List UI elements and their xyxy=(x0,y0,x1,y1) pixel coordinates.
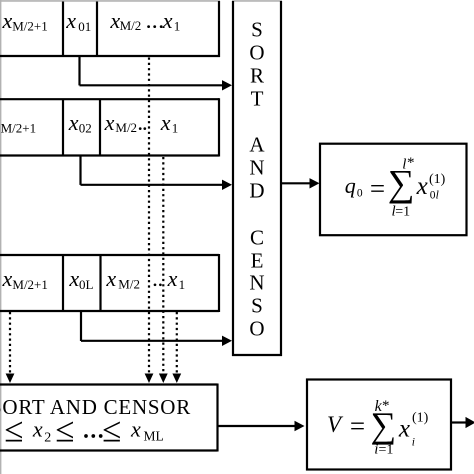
svg-text:N: N xyxy=(249,271,264,295)
V equation box xyxy=(307,380,451,470)
svg-text:01: 01 xyxy=(78,19,91,34)
arrow sorter to q0 box xyxy=(282,178,320,188)
svg-text:O: O xyxy=(249,41,264,65)
svg-text:x: x xyxy=(32,417,43,442)
svg-text:x: x xyxy=(167,266,178,291)
svg-text:S: S xyxy=(251,18,263,42)
shift register row 3 box xyxy=(0,254,219,312)
arrow bottom censor to V box xyxy=(219,421,305,431)
svg-text:S: S xyxy=(251,294,263,318)
figure cut edge left (gray) xyxy=(0,0,2,474)
svg-text:T: T xyxy=(251,87,264,111)
arrow row3 to sorter xyxy=(81,311,232,346)
svg-text:M/2: M/2 xyxy=(115,120,137,135)
svg-text:ML: ML xyxy=(144,429,164,444)
svg-text:M/2+1: M/2+1 xyxy=(12,19,48,34)
svg-text:(1): (1) xyxy=(429,172,446,187)
arrow row1 to sorter xyxy=(80,57,233,91)
svg-text:≤: ≤ xyxy=(55,410,74,449)
svg-text:x: x xyxy=(68,110,79,135)
svg-text:02: 02 xyxy=(79,121,92,136)
svg-text:x: x xyxy=(130,417,141,442)
svg-text:O: O xyxy=(249,317,264,341)
q0 equation text xyxy=(345,155,446,220)
svg-text:M/2: M/2 xyxy=(120,18,142,33)
row1 cell label x_M/2+1 xyxy=(2,8,48,34)
svg-text:l: l xyxy=(436,190,439,202)
svg-text:x: x xyxy=(162,8,173,33)
vertical text SORT AND CENSO xyxy=(249,18,265,341)
svg-text:l: l xyxy=(402,157,406,173)
svg-text:x: x xyxy=(104,110,115,135)
svg-text:R: R xyxy=(250,64,264,88)
row1 cell label x_01 xyxy=(65,8,91,34)
figure cut edge top (gray) xyxy=(0,0,220,2)
svg-text:E: E xyxy=(251,249,264,273)
svg-text:q: q xyxy=(345,173,356,198)
svg-text:C: C xyxy=(250,226,264,250)
svg-text:M/2+1: M/2+1 xyxy=(1,121,37,136)
svg-text:x: x xyxy=(2,266,13,291)
svg-text:x: x xyxy=(398,416,410,443)
svg-text:≤: ≤ xyxy=(4,410,23,449)
svg-text:i: i xyxy=(412,437,415,449)
arrow V box output xyxy=(452,417,474,428)
svg-text:M/2+1: M/2+1 xyxy=(12,277,48,292)
arrow row2 to sorter xyxy=(81,156,233,190)
svg-text:A: A xyxy=(249,133,265,157)
svg-text:=: = xyxy=(350,411,365,441)
row3 cell label x_M/2+1 xyxy=(2,266,48,292)
svg-text:=1: =1 xyxy=(379,443,394,458)
dotted line register column 3 xyxy=(172,312,181,383)
svg-text:=1: =1 xyxy=(395,205,410,220)
bottom sort-and-censor box xyxy=(0,384,218,452)
svg-text:1: 1 xyxy=(174,19,181,34)
svg-text:x: x xyxy=(416,173,428,200)
row2 cell label x_M/2+1 (clipped) xyxy=(0,110,36,136)
svg-text:D: D xyxy=(249,179,264,203)
sort-and-censor vertical box xyxy=(232,1,282,356)
svg-text:SORT AND CENSOR: SORT AND CENSOR xyxy=(0,395,191,419)
row3 cell label x_0L xyxy=(68,266,93,292)
dotted arrow row3 cell to bottom censor xyxy=(6,312,15,383)
svg-text:M/2: M/2 xyxy=(118,276,140,291)
shift register row 2 box xyxy=(0,98,219,156)
svg-text:*: * xyxy=(407,155,415,171)
svg-text:x: x xyxy=(65,8,76,33)
svg-text:*: * xyxy=(382,398,390,414)
svg-text:x: x xyxy=(105,266,116,291)
svg-text:x: x xyxy=(2,8,13,33)
dotted line register column 1 xyxy=(145,58,154,384)
row2 cell label x_02 xyxy=(68,110,92,136)
q0 equation box xyxy=(320,144,467,236)
svg-text:0: 0 xyxy=(357,188,363,200)
row2 cell label x_M/2 .. x_1 xyxy=(104,110,179,136)
svg-text:N: N xyxy=(249,156,264,180)
svg-text:0L: 0L xyxy=(79,277,94,292)
V equation text xyxy=(327,398,429,458)
svg-text:x: x xyxy=(68,266,79,291)
svg-text:1: 1 xyxy=(172,121,179,136)
svg-text:x: x xyxy=(160,110,171,135)
dotted line register column 2 xyxy=(159,157,168,383)
svg-text:≤: ≤ xyxy=(102,410,121,449)
svg-text:=: = xyxy=(370,174,385,204)
bottom box formula x1<=x2<=...<=xML xyxy=(4,410,163,449)
row3 cell label x_M/2 .. x_1 xyxy=(105,266,185,292)
row1 cell label x_M/2 ...x_1 xyxy=(109,8,180,34)
svg-text:(1): (1) xyxy=(412,410,429,425)
svg-text:2: 2 xyxy=(44,431,51,446)
shift register row 1 box xyxy=(0,1,220,57)
svg-text:1: 1 xyxy=(179,277,186,292)
